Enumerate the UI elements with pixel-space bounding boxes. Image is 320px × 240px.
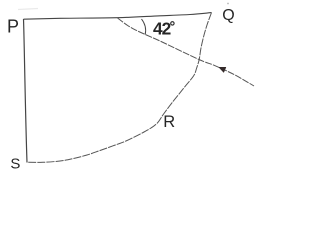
degree symbol of 42 [171,22,174,25]
faint scan speck above Q [227,3,229,5]
svg-text:R: R [163,113,175,131]
transversal ray from 42-degree vertex down-right through the arc [118,18,255,86]
svg-text:S: S [10,155,20,172]
side PQ (top line from P corner to Q corner) [24,13,212,20]
svg-text:Q: Q [222,7,234,24]
faint scan smudge above top-left line [18,9,38,10]
svg-text:42: 42 [153,19,171,39]
side PS (left vertical line from P corner down to S corner) [24,19,28,163]
angle arc tick for 42 degrees [142,19,146,35]
svg-text:P: P [7,17,19,37]
arrowhead on ray (pointing up-left toward vertex) [219,67,226,72]
arc QRS (quarter-circle arc from Q down through R to S) [27,13,212,163]
